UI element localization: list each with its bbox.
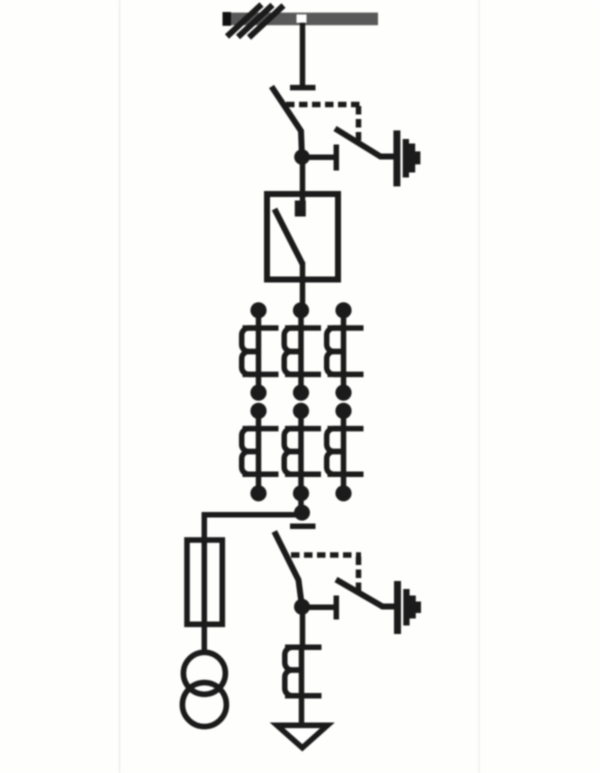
breaker blade xyxy=(275,209,303,264)
CT2a primary wire xyxy=(256,411,262,493)
CT2a winding bump 1 xyxy=(242,429,258,452)
CT2b winding bump 1 xyxy=(284,429,300,452)
earth electrode E1 stepped bars xyxy=(403,139,421,178)
CT1c primary wire xyxy=(341,310,347,392)
CT2c top tick xyxy=(328,426,364,432)
circuit breaker box xyxy=(267,194,338,280)
earth electrode E2 stepped bars xyxy=(403,589,421,626)
CT1c bottom dot xyxy=(335,385,351,401)
voltage transformer TV winding 2 xyxy=(182,683,226,727)
CT2b winding bump 2 xyxy=(284,452,300,475)
coil L1 winding bump 2 xyxy=(285,670,301,696)
coil L1 winding bump 1 xyxy=(285,647,301,670)
wire J3 to earthing-switch tick xyxy=(306,605,334,611)
CT2b bottom dot xyxy=(293,485,309,501)
CT1b primary wire xyxy=(298,310,304,392)
CT1c bottom tick xyxy=(328,372,364,378)
CT1b top dot xyxy=(293,302,309,318)
CT2b bottom tick xyxy=(285,471,321,477)
CT1b winding bump 1 xyxy=(284,328,300,352)
CT2a winding bump 2 xyxy=(242,452,258,475)
busbar hatch 2 xyxy=(238,5,273,37)
scan edge right xyxy=(478,0,480,773)
wire breaker to CT xyxy=(300,262,306,315)
CT1b bottom tick xyxy=(285,372,321,378)
CT1a winding bump 1 xyxy=(242,328,258,352)
CT2b top dot xyxy=(293,403,309,419)
scan edge left xyxy=(119,0,121,773)
earth triangle symbol xyxy=(277,725,328,748)
CT2c primary wire xyxy=(341,411,347,493)
wire busbar to disconnector xyxy=(300,23,306,88)
busbar xyxy=(224,13,378,26)
disconnector QS2 blade xyxy=(274,532,302,608)
CT2c bottom dot xyxy=(335,485,351,501)
breaker top contact stub xyxy=(295,201,306,217)
CT1a bottom tick xyxy=(243,372,279,378)
CT1b top tick xyxy=(285,325,321,331)
CT1a winding bump 2 xyxy=(242,352,258,375)
busbar tap notch xyxy=(297,14,307,22)
wire J3 to coil xyxy=(300,607,306,650)
disconnector QS1 fixed contact tick xyxy=(290,85,316,91)
wire J2 to VT branch xyxy=(204,515,302,545)
CT2c winding bump 2 xyxy=(327,452,343,475)
CT1a top dot xyxy=(250,302,266,318)
wire J1 to earthing-switch tick xyxy=(306,155,334,161)
fuse F1 body xyxy=(187,540,222,624)
interlock dashed link bottom vertical xyxy=(356,557,362,591)
disconnector QS1 blade xyxy=(272,87,303,158)
earth electrode E1 bar1 xyxy=(393,130,400,186)
interlock dashed link top vertical xyxy=(356,106,362,141)
busbar left cap xyxy=(223,12,232,26)
coil L1 top tick xyxy=(285,645,322,651)
CT2c bottom tick xyxy=(328,471,364,477)
voltage transformer TV winding 1 xyxy=(183,652,225,694)
CT1a bottom dot xyxy=(250,385,266,401)
node J3 junction dot xyxy=(294,599,310,615)
CT2a top dot xyxy=(250,403,266,419)
CT1a primary wire xyxy=(256,310,262,392)
CT2b top tick xyxy=(285,426,321,432)
earth electrode E2 bar1 xyxy=(394,581,401,634)
node J2 junction dot xyxy=(294,505,310,521)
CT2c winding bump 1 xyxy=(327,429,343,452)
CT1c winding bump 2 xyxy=(327,352,343,375)
earthing switch ES2 blade xyxy=(336,580,394,607)
interlock dashed link top horizontal xyxy=(286,102,361,108)
busbar hatch 3 xyxy=(249,6,284,38)
CT1c winding bump 1 xyxy=(327,328,343,352)
earthing switch ES1 blade xyxy=(335,129,394,157)
CT1c top tick xyxy=(328,325,364,331)
interlock dashed link bottom horizontal xyxy=(291,552,361,558)
CT2a bottom tick xyxy=(243,471,279,477)
CT2a top tick xyxy=(243,426,279,432)
disconnector QS2 fixed contact tick xyxy=(290,524,316,530)
CT2b primary wire xyxy=(298,411,304,513)
coil L1 wire through xyxy=(299,647,305,725)
coil L1 bottom tick xyxy=(285,693,322,699)
earthing switch ES2 fixed tick xyxy=(334,596,340,620)
CT2c top dot xyxy=(335,403,351,419)
fuse F1 wire through xyxy=(202,540,208,652)
node J1 junction dot xyxy=(294,149,310,165)
CT1b bottom dot xyxy=(293,385,309,401)
earthing switch ES1 fixed tick xyxy=(334,145,340,171)
CT1a top tick xyxy=(243,325,279,331)
CT1c top dot xyxy=(335,302,351,318)
busbar hatch 1 xyxy=(227,5,262,37)
CT1b winding bump 2 xyxy=(284,352,300,375)
CT2a bottom dot xyxy=(250,485,266,501)
wire J1 to breaker xyxy=(300,157,306,216)
